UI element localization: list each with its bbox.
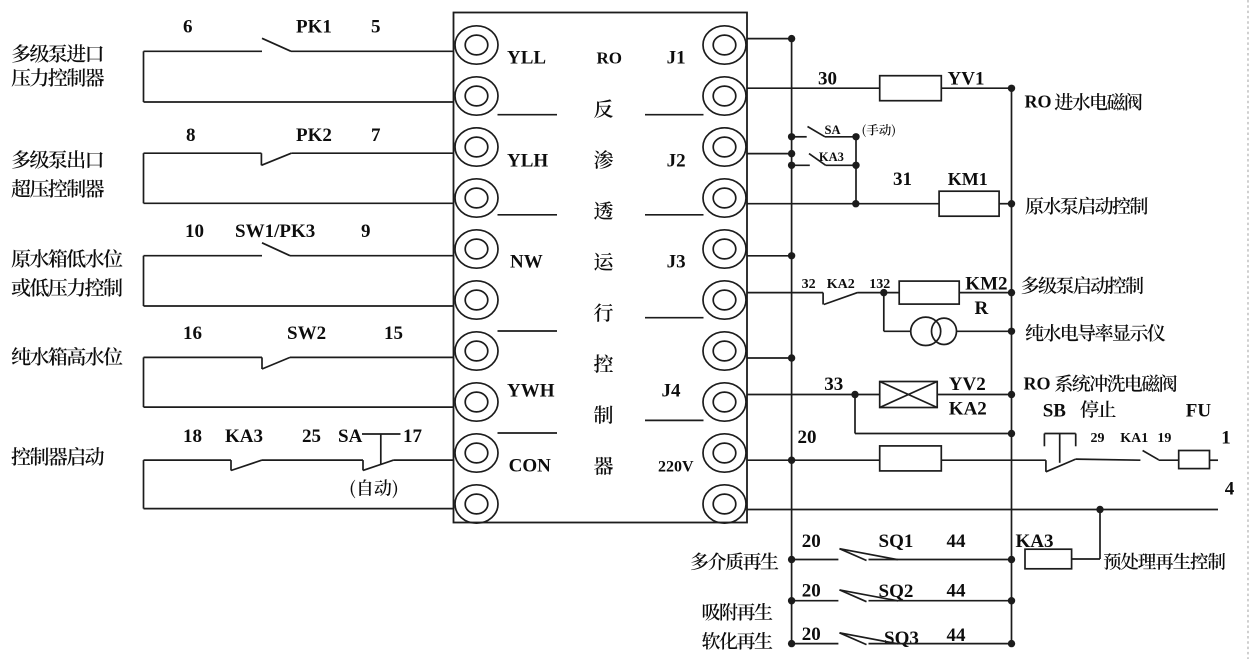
svg-text:17: 17 [403, 426, 423, 447]
svg-text:RO: RO [1024, 374, 1051, 394]
terminal L2 pin circle [455, 77, 498, 115]
wire KA2 to KM2 [858, 292, 900, 294]
wire CON loop top segments [144, 459, 232, 461]
terminal R8 pin circle [703, 383, 746, 421]
svg-text:20: 20 [802, 624, 821, 645]
wire FU stub [1210, 459, 1219, 461]
controller title char 透 [594, 201, 613, 219]
terminal pair separators left [498, 114, 558, 116]
switch KA3 blade [230, 460, 232, 470]
svg-text:SW1/PK3: SW1/PK3 [235, 221, 315, 242]
terminal L9 pin circle [455, 434, 498, 472]
switch KA2 blade [822, 293, 824, 305]
svg-text:RO: RO [597, 48, 623, 67]
terminal L5 pin circle [455, 230, 498, 268]
svg-text:20: 20 [802, 580, 821, 601]
wire row4 to KM1 [747, 203, 939, 205]
wire row10 (net 4) [747, 509, 1218, 511]
switch SQ3 blades [840, 633, 867, 645]
wire KM1 to bus2 [999, 203, 1011, 205]
terminal R7 pin circle [703, 332, 746, 370]
svg-text:132: 132 [869, 277, 890, 292]
svg-text:SB: SB [1043, 401, 1067, 422]
switch PK1 blade [262, 38, 291, 51]
svg-text:5: 5 [371, 17, 381, 38]
svg-text:220V: 220V [658, 459, 694, 476]
svg-text:CON: CON [509, 456, 551, 477]
wire PK2 loop left+bottom [143, 153, 145, 203]
switch SW2 blade [261, 357, 263, 369]
label (自动) [351, 479, 398, 498]
wire SQ1 left [788, 556, 795, 563]
wire SQ1 right [869, 559, 1012, 561]
svg-text:4: 4 [1225, 479, 1235, 500]
svg-text:SA: SA [825, 123, 841, 137]
svg-text:PK1: PK1 [296, 17, 332, 38]
switch SW1/PK3 blade [262, 243, 290, 256]
svg-text:10: 10 [185, 221, 204, 242]
terminal pair separators right [645, 114, 704, 116]
wire row7 to bus [747, 357, 792, 359]
svg-text:KM2: KM2 [965, 273, 1007, 294]
label 停止 [1080, 400, 1115, 418]
label (手动) [863, 124, 895, 137]
wire J1 to bus [747, 38, 792, 40]
label 原水泵启动控制 [1026, 197, 1148, 215]
svg-text:44: 44 [947, 580, 967, 601]
label 控制器启动 [11, 447, 104, 466]
wire J3 to bus [747, 255, 792, 257]
svg-text:25: 25 [302, 426, 321, 447]
svg-text:9: 9 [361, 221, 371, 242]
svg-text:SW2: SW2 [287, 323, 326, 344]
wire PK1 loop left+bottom [143, 51, 145, 102]
label 软化再生 [702, 632, 772, 650]
wire SQ3 left [788, 640, 795, 647]
wire KA3 branch [826, 164, 856, 166]
svg-text:J2: J2 [667, 151, 686, 172]
fuse FU [1179, 451, 1210, 469]
wire YV2 to bus2 [937, 394, 1011, 396]
terminal L8 pin circle [455, 383, 498, 421]
bus line 20 (vertical) [791, 39, 793, 644]
svg-text:20: 20 [798, 427, 817, 448]
wire KA3 coil to net4 [1072, 558, 1100, 560]
svg-text:KM1: KM1 [948, 169, 988, 189]
controller title char 行 [594, 303, 613, 322]
svg-text:KA3: KA3 [819, 150, 844, 164]
wire SQ2 left [788, 597, 795, 604]
label 纯水电导率显示仪 [1026, 324, 1166, 342]
controller title char 运 [594, 253, 613, 271]
wire 220V row [747, 459, 880, 461]
svg-text:20: 20 [802, 531, 821, 552]
svg-text:8: 8 [186, 125, 196, 146]
terminal R2 pin circle [703, 77, 746, 115]
svg-text:33: 33 [824, 374, 843, 395]
wire SW2 loop left+bottom [143, 357, 145, 407]
label 预处理再生控制 [1104, 553, 1225, 570]
wire YV1 to bus2 [941, 87, 1011, 89]
wire SW1 loop top [144, 255, 263, 257]
svg-text:J1: J1 [667, 47, 686, 68]
terminal R5 pin circle [703, 230, 746, 268]
terminal R10 pin circle [703, 485, 746, 523]
label 吸附再生 [703, 603, 772, 621]
svg-text:YLH: YLH [507, 151, 548, 172]
switch SA blade [362, 460, 364, 470]
wire CON loop left+bottom [143, 460, 145, 509]
terminal R3 pin circle [703, 128, 746, 166]
page margin dashed rule [1247, 0, 1249, 659]
wire row6 to KA2 contact [747, 292, 823, 294]
label 多级泵进口压力控制器 [12, 44, 103, 63]
svg-text:RO: RO [1025, 92, 1052, 112]
svg-text:44: 44 [947, 531, 967, 552]
svg-text:7: 7 [371, 125, 381, 146]
valve coil YV2 (crossed box) [880, 382, 938, 408]
svg-text:YV2: YV2 [949, 374, 986, 395]
label 多介质再生 [691, 552, 778, 570]
terminal R4 pin circle [703, 179, 746, 217]
svg-text:SA: SA [338, 426, 363, 447]
svg-text:29: 29 [1091, 431, 1105, 446]
controller title char 反 [594, 99, 613, 118]
switch SQ2 blades [840, 590, 867, 602]
terminal L7 pin circle [455, 332, 498, 370]
wire SA/KA3 junction vertical [855, 137, 857, 204]
controller title char 制 [594, 405, 613, 423]
terminal R9 pin circle [703, 434, 746, 472]
svg-text:1: 1 [1221, 427, 1231, 448]
terminal L6 pin circle [455, 281, 498, 319]
wire meter branch [883, 293, 885, 332]
coil YV1 [880, 76, 942, 101]
switch KA3 blade [809, 154, 826, 166]
pushbutton SB (stop) [1044, 433, 1075, 435]
wire row2 to YV1 [747, 87, 880, 89]
svg-text:NW: NW [510, 251, 543, 272]
svg-text:16: 16 [183, 323, 202, 344]
wire SA branch [825, 136, 856, 138]
meter R (conductivity display) [911, 317, 941, 345]
controller title char 渗 [594, 150, 613, 169]
wire KA1 to FU [1159, 459, 1179, 461]
svg-text:19: 19 [1157, 431, 1171, 446]
label 多级泵启动控制 [1022, 276, 1144, 294]
wire SQ2 right [869, 600, 1012, 602]
switch SA blade (manual) [808, 127, 826, 137]
terminal L3 pin circle [455, 128, 498, 166]
label 纯水箱高水位 [12, 347, 123, 366]
switch KA3 branch stub [788, 162, 795, 169]
wire SB to KA1 [1076, 459, 1141, 460]
svg-text:KA2: KA2 [949, 399, 987, 420]
svg-text:KA1: KA1 [1120, 431, 1148, 446]
terminal R6 pin circle [703, 281, 746, 319]
svg-text:YLL: YLL [507, 47, 546, 68]
svg-text:YWH: YWH [507, 381, 555, 402]
svg-text:KA3: KA3 [225, 426, 263, 447]
svg-text:PK2: PK2 [296, 125, 332, 146]
svg-text:32: 32 [802, 277, 816, 292]
switch SA manual actuator T [362, 433, 401, 435]
contactor coil KM2 [899, 281, 959, 304]
terminal L1 pin circle [455, 26, 498, 64]
wire SQ3 right [869, 643, 1012, 645]
svg-text:15: 15 [384, 323, 403, 344]
label 原水箱低水位或低压力控制 [12, 249, 123, 268]
wire SW2 loop top [144, 356, 263, 358]
controller title char 控 [594, 354, 613, 373]
svg-text:31: 31 [893, 169, 912, 190]
switch KA1 blade [1143, 451, 1159, 460]
bus line common return (vertical) [1011, 88, 1013, 643]
wire PK2 loop top [144, 152, 262, 154]
wire meter to bus2 [957, 330, 1012, 332]
wire J2 to bus [747, 153, 792, 155]
svg-text:SQ3: SQ3 [884, 628, 919, 649]
terminal L4 pin circle [455, 179, 498, 217]
controller box RO 反渗透运行控制器 [454, 13, 748, 523]
svg-text:YV1: YV1 [948, 69, 985, 90]
wire supply to SB [941, 459, 1046, 461]
svg-text:J3: J3 [667, 251, 686, 272]
svg-text:6: 6 [183, 17, 193, 38]
supply box [880, 446, 942, 471]
svg-text:KA2: KA2 [827, 277, 855, 292]
svg-text:18: 18 [183, 426, 202, 447]
relay coil KA3 [1025, 549, 1072, 569]
contactor coil KM1 [939, 191, 999, 216]
terminal R1 pin circle [703, 26, 746, 64]
wire J4 row to YV2 [747, 394, 880, 396]
svg-text:SQ1: SQ1 [879, 531, 914, 552]
svg-text:R: R [975, 298, 989, 319]
wire SW1 loop left+bottom [143, 256, 145, 306]
switch SA branch stub [788, 133, 795, 140]
controller title char 器 [594, 457, 613, 475]
wire PK1 loop top [144, 50, 263, 52]
wire KM2 to bus2 [959, 292, 1011, 294]
terminal L10 pin circle [455, 485, 498, 523]
svg-text:30: 30 [818, 69, 837, 90]
label 多级泵出口超压控制器 [12, 150, 103, 169]
svg-text:FU: FU [1186, 401, 1212, 422]
switch PK2 blade [260, 153, 262, 165]
wire KA2 parallel loop [854, 395, 856, 434]
switch SQ1 blades [840, 549, 867, 561]
svg-text:J4: J4 [662, 381, 682, 402]
